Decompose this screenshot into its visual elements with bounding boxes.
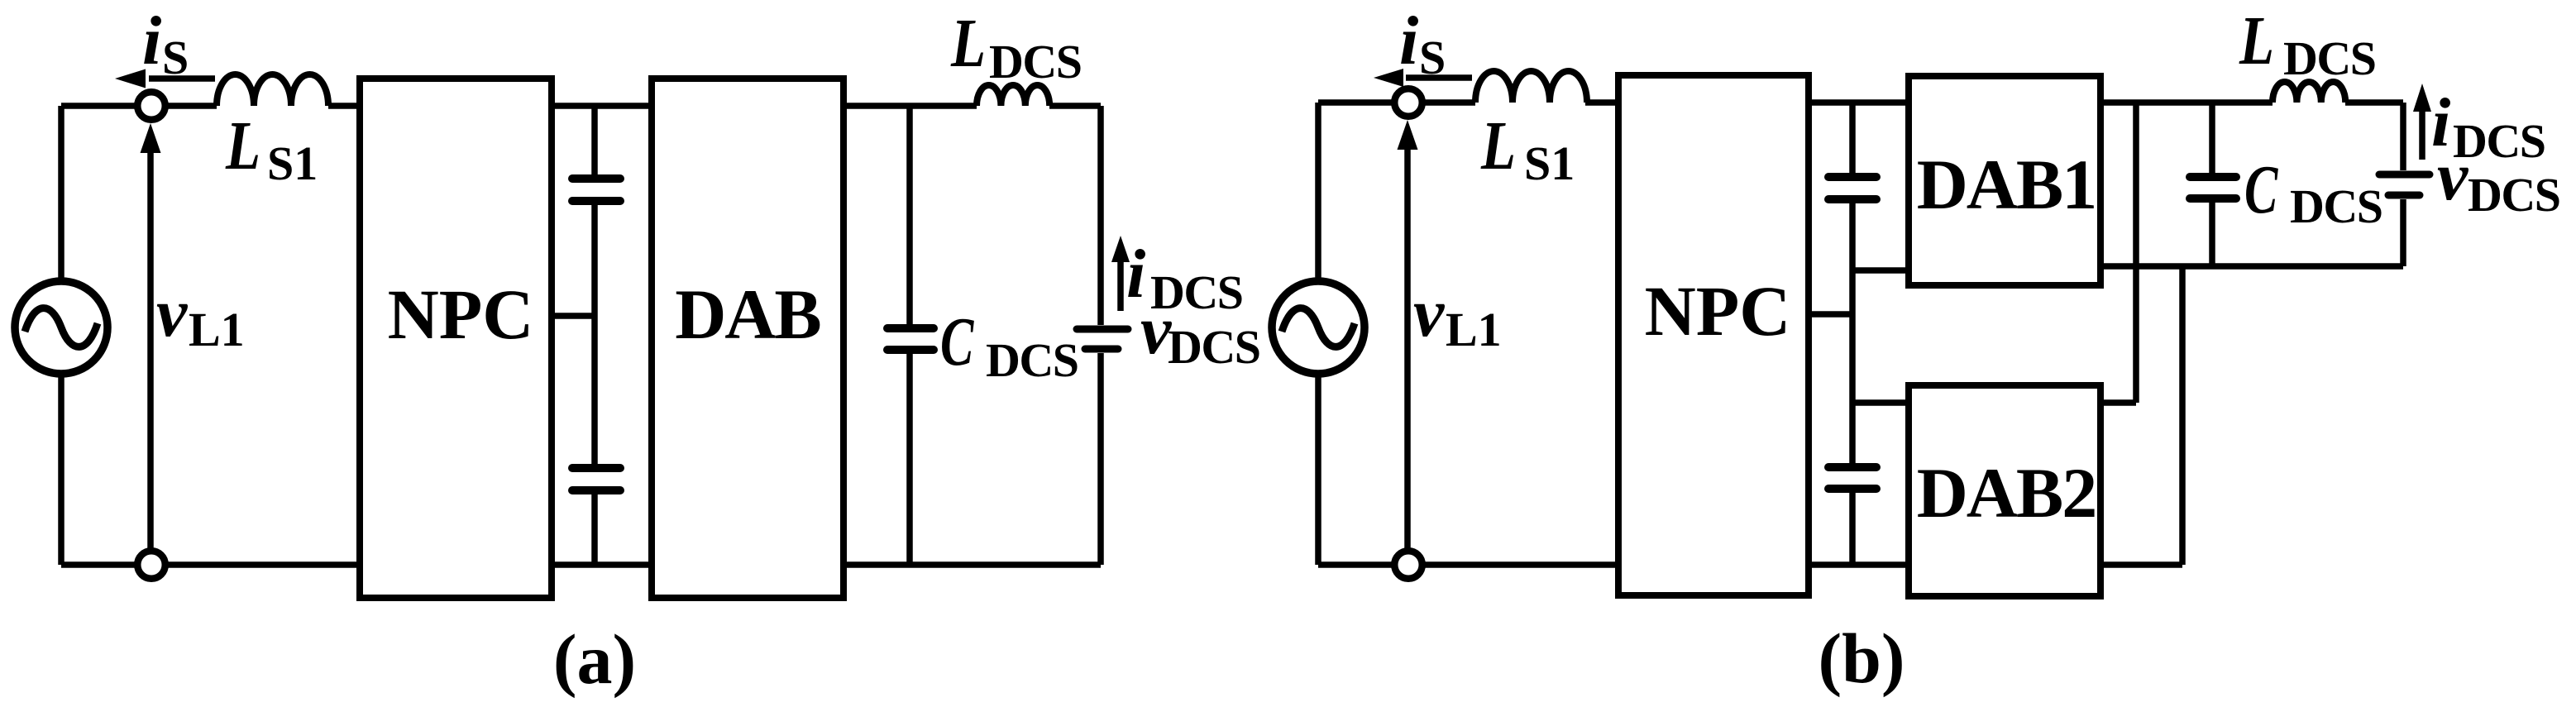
svg-text:DAB: DAB (675, 275, 820, 354)
svg-text:C: C (940, 303, 974, 380)
svg-text:DCS: DCS (2283, 31, 2376, 85)
svg-text:i: i (1399, 2, 1418, 79)
svg-text:L: L (950, 5, 986, 82)
svg-text:L: L (1480, 107, 1516, 184)
svg-text:NPC: NPC (388, 275, 534, 354)
svg-text:NPC: NPC (1645, 271, 1791, 351)
svg-text:DCS: DCS (989, 35, 1082, 88)
svg-text:L1: L1 (1446, 303, 1502, 356)
svg-text:DAB2: DAB2 (1917, 453, 2096, 533)
svg-text:S1: S1 (1524, 136, 1575, 190)
svg-text:DAB1: DAB1 (1917, 145, 2096, 224)
svg-text:S: S (1419, 31, 1446, 84)
svg-text:L: L (2239, 2, 2274, 79)
svg-text:i: i (142, 2, 161, 79)
svg-text:(a): (a) (553, 619, 636, 699)
svg-text:S: S (162, 31, 189, 84)
svg-text:L: L (225, 107, 260, 184)
svg-text:L1: L1 (189, 303, 245, 356)
svg-text:DCS: DCS (2468, 168, 2560, 222)
svg-text:DCS: DCS (1168, 320, 1260, 374)
svg-text:v: v (1413, 275, 1446, 351)
svg-text:DCS: DCS (986, 333, 1078, 387)
svg-text:S1: S1 (267, 136, 318, 190)
svg-text:v: v (2437, 138, 2469, 215)
svg-text:v: v (156, 275, 189, 351)
svg-text:(b): (b) (1818, 619, 1905, 698)
svg-text:DCS: DCS (2290, 179, 2382, 233)
svg-text:C: C (2244, 150, 2278, 227)
